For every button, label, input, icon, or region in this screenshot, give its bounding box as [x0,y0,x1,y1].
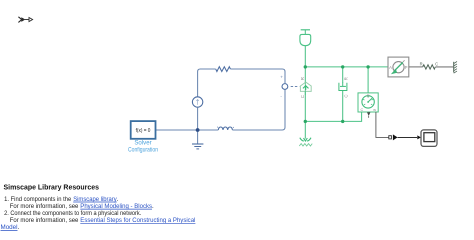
svg-text:A: A [389,65,392,70]
top horizontal wire [305,66,388,68]
top wire left segment [198,69,216,97]
svg-text:C: C [435,61,438,66]
svg-text:+: + [280,74,283,79]
rotational electromechanical converter pentagon [300,82,311,91]
clamped reference (hatched wall) [453,62,455,73]
svg-text:.: . [18,224,20,231]
rotational damper icon [339,83,346,90]
junction node E (damper / bottom wire) [341,120,344,123]
damper branch wire [342,67,344,122]
svg-text:.: . [152,203,154,210]
svg-text:w: w [373,108,376,112]
sensor branch wire [367,67,369,93]
svg-text:R: R [300,77,305,80]
physical signal line [376,112,389,137]
gauge needle [368,98,372,102]
PS-Simulink converter [389,136,392,139]
converter shaft through [304,83,306,96]
wire sensor to top corner [230,69,285,84]
wire source to junction [197,107,199,130]
main vertical shaft wire [304,46,306,139]
svg-text:Solver: Solver [134,140,151,147]
spring wire right [435,66,453,68]
signal line to scope [398,136,418,138]
junction node N1 (solver / source / ground) [196,128,200,132]
svg-text:For more information, see: For more information, see [10,203,79,210]
svg-text:Configuration: Configuration [128,147,158,154]
svg-text:.: . [117,196,119,203]
ideal torque source block U1 [388,57,409,77]
svg-text:C: C [300,95,305,98]
junction node B (damper / top wire) [341,65,344,68]
current source I1 circle [192,97,202,107]
junction node D (shaft / bottom wire) [304,120,307,123]
svg-text:R: R [420,61,423,66]
svg-text:For more information, see: For more information, see [10,217,79,224]
svg-text:2. Connect the components to f: 2. Connect the components to form a phys… [4,210,141,217]
svg-text:f(x) = 0: f(x) = 0 [136,128,151,134]
dashed coupling line [291,86,300,88]
current source arrow [196,100,198,105]
electrical ground symbol [192,143,203,145]
gauge circle [362,96,374,108]
ideal rotational motion sensor block [358,93,378,112]
svg-text:1. Find components in the: 1. Find components in the [4,196,72,203]
svg-text:R: R [344,77,349,80]
ground wire stub [197,130,199,144]
breadcrumb arrow icon [18,17,32,23]
wire solver to junction / bottom wire left segment [156,129,219,131]
inertia stub [304,30,306,35]
scope block [421,130,437,147]
inertia cup [300,34,311,45]
solver configuration block f(x)=0 [131,121,156,139]
svg-text:C: C [361,108,364,112]
svg-text:P: P [405,65,408,70]
spring wire left [409,66,423,68]
bottom wire right segment [232,90,285,131]
bottom horizontal wire [305,112,361,121]
resistor R1 [216,67,231,72]
junction node A (shaft / top wire) [304,65,307,68]
svg-text:R: R [367,94,370,98]
torque arrow green [395,62,403,70]
converter electrical port circle [282,84,288,90]
sensor PS port arrow [367,112,370,116]
gauge ticks [363,96,374,105]
rotational spring (zigzag) [423,65,436,69]
svg-text:C: C [344,94,349,97]
converter arrow icon [303,86,309,90]
mechanical rotational reference (ground) [304,138,308,141]
svg-text:Simscape Library Resources: Simscape Library Resources [4,182,100,191]
svg-text:-: - [280,93,282,98]
junction node C (sensor / top wire) [366,65,369,68]
inductor L1 [218,127,232,130]
arrowhead into scope [417,135,421,139]
inertia J1 crossbar [301,29,310,31]
